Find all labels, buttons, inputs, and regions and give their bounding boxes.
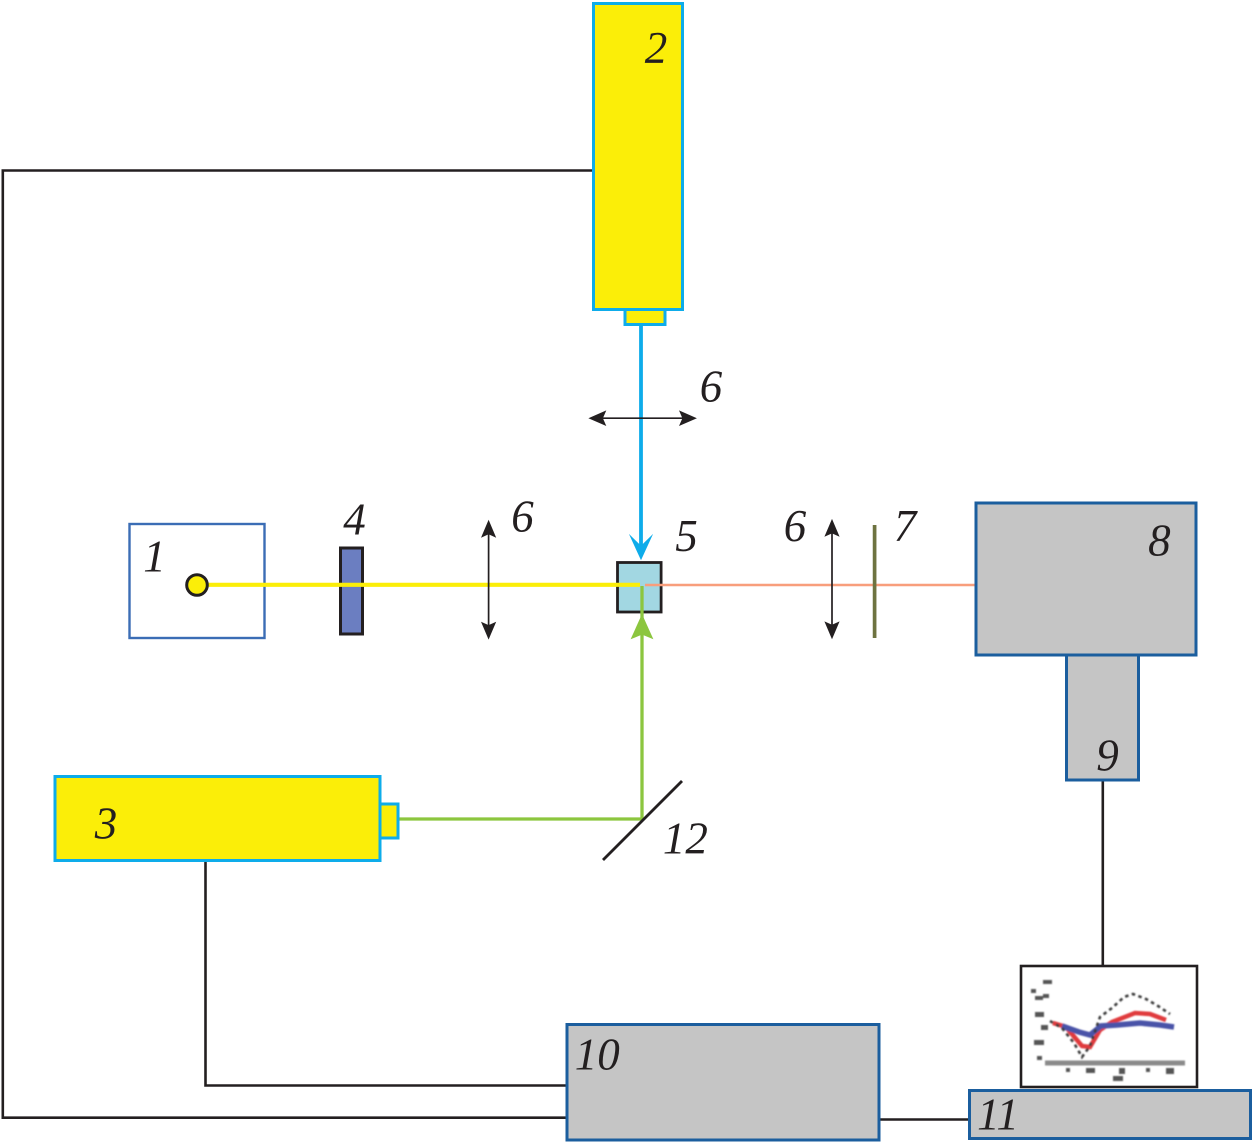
svg-text:12: 12 bbox=[663, 814, 708, 864]
svg-text:10: 10 bbox=[575, 1030, 620, 1080]
svg-text:6: 6 bbox=[700, 362, 723, 412]
svg-text:6: 6 bbox=[511, 492, 534, 542]
svg-text:4: 4 bbox=[343, 495, 366, 545]
svg-text:8: 8 bbox=[1148, 516, 1171, 566]
svg-text:1: 1 bbox=[143, 532, 166, 582]
svg-text:5: 5 bbox=[675, 511, 698, 561]
svg-text:2: 2 bbox=[645, 23, 668, 73]
svg-text:11: 11 bbox=[977, 1090, 1019, 1140]
svg-text:6: 6 bbox=[784, 501, 807, 551]
svg-text:9: 9 bbox=[1096, 731, 1119, 781]
svg-text:7: 7 bbox=[894, 501, 919, 551]
svg-text:3: 3 bbox=[94, 799, 118, 849]
